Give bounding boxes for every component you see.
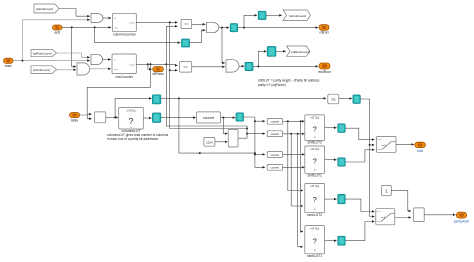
wire AND3 to T4 [239, 65, 244, 67]
and-gate AND3 [226, 60, 239, 72]
wire convert3 to shiftLUT1 input1 [283, 153, 305, 155]
wire bundle b2 to rankLUT2 input2 [291, 134, 303, 206]
wire bundle b1 to rankLUT2 input1 [288, 121, 303, 190]
converter T3 [258, 11, 266, 19]
svg-text:arst: arst [114, 26, 118, 29]
wire OR1 to columnCounter in [103, 17, 111, 19]
wire read branch up to OR1 input2 [22, 20, 89, 61]
wire convert0 to T8 [221, 117, 236, 119]
from tag [wlColCount] P3 [31, 66, 57, 74]
outport shift [415, 142, 426, 153]
wire switch2 to SUM input2 [395, 217, 411, 219]
wire T4 to outport endRow [253, 65, 318, 67]
junction endRow branch [257, 65, 259, 67]
junction ofRows [147, 63, 149, 65]
junction read [21, 60, 23, 62]
wire T8 down the convert feed column [244, 117, 266, 167]
wire table to selector SB input2 [80, 115, 92, 119]
svg-text:~= 0: ~= 0 [381, 144, 386, 147]
junction after convert0 [222, 117, 224, 119]
wire P1 to OR1 input1 [59, 9, 90, 17]
converter TL1 [338, 124, 345, 132]
svg-text:in each row of a parity bit ad: in each row of a parity bit addresses. [107, 137, 159, 141]
svg-text:n-D T(u): n-D T(u) [310, 117, 319, 120]
outport parityAddr [454, 212, 470, 223]
lookup table rankLUT1 [305, 226, 325, 258]
converter T7 [152, 113, 160, 122]
svg-text:rankLUT1: rankLUT1 [307, 254, 322, 258]
svg-text:shift: shift [417, 149, 423, 153]
svg-text:==: == [184, 23, 188, 27]
svg-text:?: ? [313, 157, 317, 166]
svg-text:?: ? [313, 195, 317, 204]
goto tag [wlColCount] G1 [283, 10, 311, 21]
converter T5 [267, 47, 276, 57]
wire bundle b5 to rankLUT1 input1 [301, 121, 303, 231]
svg-text:parityAddr: parityAddr [454, 219, 470, 223]
svg-text:shiftLUT = parity length - (Pa: shiftLUT = parity length - (Parity bit a… [258, 78, 320, 82]
svg-text:arst: arst [54, 30, 60, 34]
constant 1024 [204, 137, 215, 146]
svg-text:n-D T(u): n-D T(u) [310, 148, 319, 151]
selector SB [95, 112, 106, 123]
junction after AND1 [221, 27, 223, 29]
svg-text:ofRows: ofRows [152, 72, 164, 76]
goto tag [wlRowCount] G2 [287, 46, 311, 56]
lookup table rankLUT2 [305, 183, 325, 217]
outport ofRows [152, 67, 164, 76]
wire T3 to goto G1 [266, 14, 282, 16]
wire up to T5 [258, 51, 266, 66]
data type convert3 [267, 152, 282, 158]
annotation shiftLUT note [258, 78, 320, 87]
and-gate AND1 [207, 22, 219, 32]
wire shiftLUT1 to TL2 [325, 159, 337, 161]
inport arst [53, 25, 63, 34]
svg-text:rankLUT2: rankLUT2 [307, 213, 322, 217]
svg-text:?: ? [313, 125, 317, 134]
wire P3 to AND2 input2 [57, 69, 77, 71]
svg-text:rowCounter: rowCounter [115, 75, 133, 79]
svg-text:?: ? [313, 237, 317, 246]
svg-text:count: count [129, 63, 135, 66]
wire EQ2 to AND3 input2 [192, 66, 225, 68]
svg-text:arst: arst [114, 68, 118, 71]
svg-text:n-D T(u): n-D T(u) [310, 227, 319, 230]
svg-text:parity nT (zqFactor): parity nT (zqFactor) [258, 83, 286, 87]
wire T9 control down to switches [360, 99, 374, 217]
svg-text:convert: convert [271, 153, 280, 157]
wire stub into convert1 [255, 120, 265, 122]
junction on long wire [178, 97, 180, 99]
junction on arst wire [71, 26, 73, 28]
wire to outport ofRows [148, 64, 152, 69]
lookup table shiftLUT2 [305, 115, 325, 145]
svg-text:==: == [183, 66, 187, 70]
junction control at switch1 [369, 144, 371, 146]
wire T7 to convert0 [161, 117, 196, 119]
svg-text:shiftLUT2: shiftLUT2 [307, 141, 322, 145]
wire arst down to converter T1 [95, 27, 181, 42]
converter T9 [353, 95, 360, 103]
wire columnsLUT to T7 [143, 117, 151, 119]
wire V1 down to convert2 feed [166, 64, 247, 138]
junction on row line [199, 152, 201, 154]
svg-text:convert: convert [271, 120, 280, 124]
wire T6 to unit delay [161, 97, 326, 99]
wire up to T6 [115, 98, 152, 117]
svg-text:convert: convert [271, 132, 280, 136]
math block TB [228, 129, 238, 147]
wire convert4 to shiftLUT1 input2 [283, 166, 305, 168]
svg-text:endRow: endRow [318, 70, 331, 74]
wire up to T3 [244, 15, 257, 27]
wire control into switch1 [370, 144, 375, 146]
converter TL3 [338, 194, 345, 203]
junction colCount [169, 21, 171, 23]
wire down to 1024 row line [179, 98, 255, 153]
annotation columnsLUT note [107, 133, 168, 141]
wire AND1 to T2 [219, 27, 229, 29]
wire arst down to AND2 input1 [72, 27, 76, 66]
svg-text:read: read [5, 64, 12, 68]
wire down to AND3 input1 [222, 28, 225, 63]
from tag [wlRowCount] P2 [31, 50, 57, 57]
wire TL4 to switch2 input3 [345, 222, 374, 241]
wire unit delay to T9 [339, 98, 352, 100]
outport rdEnd [319, 25, 329, 35]
switch SW1 [377, 137, 397, 153]
wire bundle b4 to rankLUT1 input2 [298, 134, 303, 247]
svg-text:[wlColCount]: [wlColCount] [36, 7, 53, 11]
svg-text:[wlRowCount]: [wlRowCount] [33, 51, 52, 55]
lookup table shiftLUT1 [305, 146, 325, 178]
wire SUM to outport parityAddr [424, 214, 455, 216]
wire rankLUT2 to TL3 [325, 198, 337, 200]
wire AND2 to rowCounter arst [90, 68, 111, 70]
svg-text:~= 0: ~= 0 [380, 217, 385, 220]
wire stub into convert2 [247, 133, 265, 135]
junction SB out [114, 116, 116, 118]
wire arst to columnCounter arst [62, 26, 111, 28]
inport read [4, 58, 14, 68]
wire stub into convert3 [255, 153, 265, 155]
converter T2 [230, 24, 237, 32]
wire P2 to OR2 input1 [57, 53, 90, 57]
wire SB to columnsLUT [106, 116, 118, 118]
svg-text:n-D T(u): n-D T(u) [310, 185, 319, 188]
svg-text:count: count [129, 21, 135, 24]
svg-text:[wlRowCount]: [wlRowCount] [292, 50, 311, 54]
wire TL1 to switch1 input1 [345, 128, 374, 139]
svg-text:n-D T(u): n-D T(u) [127, 109, 136, 112]
junction on arst wire 2 [94, 26, 96, 28]
wire T5 to goto G2 [276, 50, 286, 52]
relational operator EQ2 [180, 62, 192, 73]
lookup table columnsLUT [119, 107, 144, 133]
svg-text:?: ? [129, 117, 134, 126]
wire 1024 to TB input2 [215, 141, 228, 143]
svg-text:rdEnd: rdEnd [319, 31, 328, 35]
svg-text:1/z: 1/z [331, 98, 336, 102]
svg-text:columnCounter: columnCounter [113, 33, 137, 37]
wire down to TB input1 [223, 118, 227, 134]
inport table [70, 113, 80, 123]
wire V2 colCount down to EQ2 input2 [170, 22, 178, 70]
or-gate OR2 [91, 54, 103, 64]
data type convert0 [197, 112, 221, 123]
wire rowCounter count to EQ2 input1 [136, 64, 177, 65]
wire rankLUT1 to TL4 [325, 240, 337, 242]
constant one [382, 185, 392, 195]
wire OR2 to rowCounter in [103, 58, 111, 60]
converter TL2 [338, 158, 345, 166]
data type convert2 [267, 131, 282, 137]
junction V1 [165, 63, 167, 65]
converter T6 [152, 95, 160, 104]
relational operator EQ1 [181, 19, 192, 28]
subsystem rowCounter [112, 54, 136, 79]
converter T1 [182, 39, 190, 47]
wire TL2 to switch1 input3 [345, 150, 374, 162]
data type convert4 [267, 164, 282, 170]
wire T1 to AND1 input2 [190, 30, 206, 42]
wire switch1 to outport shift [396, 143, 414, 145]
junction rdEnd branch [243, 27, 245, 29]
or-gate OR1 [91, 14, 103, 23]
subsystem columnCounter [113, 13, 137, 36]
svg-text:[wlColCount]: [wlColCount] [289, 14, 306, 18]
junction countdown [150, 63, 152, 65]
svg-text:1024: 1024 [206, 141, 213, 145]
wire convert1 to shiftLUT2 input1 [283, 120, 305, 122]
sum block SUM [414, 208, 425, 222]
from tag [wlColCount] P1 [34, 4, 59, 13]
wire read to OR2 input2 [13, 60, 90, 62]
svg-text:convert: convert [271, 166, 280, 170]
svg-text:[wlColCount]: [wlColCount] [33, 68, 50, 72]
wire shiftLUT2 to TL1 [325, 127, 337, 129]
wire EQ1 to AND1 input1 [192, 23, 206, 25]
unit delay 1/z [328, 94, 339, 104]
outport endRow [318, 63, 331, 74]
svg-text:shiftLUT1: shiftLUT1 [307, 174, 322, 178]
converter TL4 [338, 236, 345, 245]
data type convert1 [267, 118, 282, 124]
wire T2 to outport rdEnd [238, 27, 318, 29]
wire V1 up to EQ1 input2 [166, 26, 177, 64]
wire convert2 to shiftLUT2 input2 [283, 133, 305, 135]
junction V2 lower branch [169, 69, 171, 71]
svg-text:table: table [71, 119, 78, 123]
wire count down-left to selector SB input1 [87, 64, 150, 114]
svg-text:convert: convert [203, 116, 214, 120]
switch SW2 [376, 209, 395, 225]
wire constant one to SUM input1 [391, 191, 411, 211]
converter T4 [245, 62, 253, 70]
converter T8 [236, 113, 244, 121]
wire columnCounter count to EQ1 [136, 21, 177, 23]
wire V2 continued down to convert2 merge [170, 70, 247, 128]
and-gate AND2 [77, 63, 90, 75]
wire TL3 to switch2 input1 [345, 199, 374, 211]
